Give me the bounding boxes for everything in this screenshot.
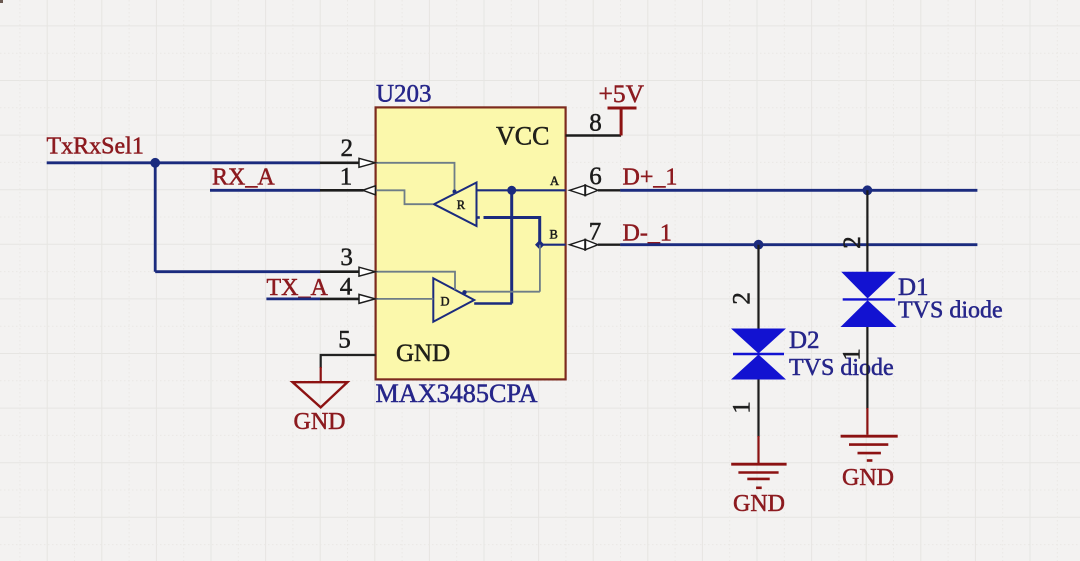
ground symbol D2 <box>731 464 786 488</box>
ground symbol pin5 <box>293 382 348 407</box>
junction A internal <box>507 186 516 195</box>
junction D- <box>754 240 764 250</box>
junction TxRxSel1 <box>150 158 160 168</box>
wire pin2 internal <box>376 163 455 194</box>
wire D1 top <box>866 190 868 271</box>
ground symbol D1 <box>841 436 898 460</box>
svg-text:B: B <box>550 228 558 242</box>
wire pin4 internal <box>376 298 434 300</box>
pin 6 stub <box>598 189 620 191</box>
svg-text:3: 3 <box>340 244 353 271</box>
wire D output to A <box>474 302 512 304</box>
svg-text:A: A <box>550 174 559 188</box>
pin 3 arrow <box>359 267 375 276</box>
svg-text:TVS diode: TVS diode <box>898 298 1003 324</box>
svg-text:7: 7 <box>589 219 602 246</box>
svg-text:D-_1: D-_1 <box>623 221 672 247</box>
wire D+ <box>620 189 977 192</box>
TVS diode D2 symbol <box>731 329 786 380</box>
wire A net vertical thick <box>510 190 513 303</box>
svg-text:2: 2 <box>728 292 755 305</box>
wire B input to R thick <box>477 216 480 219</box>
svg-text:VCC: VCC <box>496 121 549 150</box>
svg-text:D+_1: D+_1 <box>623 165 678 191</box>
pin 1 arrow <box>363 186 376 195</box>
corner mark <box>0 0 3 3</box>
svg-text:8: 8 <box>589 110 602 137</box>
svg-text:R: R <box>457 198 466 212</box>
svg-text:U203: U203 <box>376 81 432 108</box>
svg-text:D2: D2 <box>789 327 820 354</box>
pin 5 wire red part <box>320 367 322 381</box>
junction D+ <box>863 185 873 195</box>
pin 8 wire <box>566 134 622 136</box>
pin 5 wire <box>321 355 376 368</box>
pin 4 arrow <box>359 294 375 303</box>
svg-text:2: 2 <box>341 135 354 162</box>
svg-text:TX_A: TX_A <box>267 275 329 301</box>
receiver triangle R <box>434 183 477 227</box>
pin 2 arrow <box>359 158 375 167</box>
svg-text:2: 2 <box>839 236 866 249</box>
svg-text:6: 6 <box>589 163 602 190</box>
svg-text:MAX3485CPA: MAX3485CPA <box>376 379 538 408</box>
svg-text:RX_A: RX_A <box>212 165 275 191</box>
wire to pin 3 <box>155 270 320 273</box>
junction B internal <box>535 240 544 250</box>
wire D2 bottom red <box>757 436 759 464</box>
pin 7 IO symbol <box>570 240 598 250</box>
svg-text:GND: GND <box>842 465 894 491</box>
wire B net vertical gray <box>539 245 541 292</box>
TVS diode D1 symbol <box>841 272 897 327</box>
svg-text:4: 4 <box>340 274 353 301</box>
power +5V symbol <box>608 108 637 136</box>
svg-text:D: D <box>441 295 450 309</box>
wire D- <box>620 243 977 246</box>
svg-text:1: 1 <box>839 348 866 361</box>
wire TxRxSel1 horizontal to pin 2 <box>47 161 320 164</box>
wire D inverted output to B <box>466 291 540 293</box>
svg-text:GND: GND <box>396 340 450 367</box>
wire D1 bottom <box>866 327 868 409</box>
wire pin1 internal <box>376 190 433 204</box>
svg-text:5: 5 <box>338 327 351 354</box>
wire TxRxSel1 vertical <box>154 163 157 272</box>
pin 7 stub <box>598 243 620 245</box>
inversion dot D output <box>462 290 466 294</box>
wire D1 bottom red <box>866 408 868 435</box>
wire D2 bottom <box>757 380 759 438</box>
wire RX_A <box>210 189 320 192</box>
wire D2 top <box>757 245 759 329</box>
op-amp U1 chip body U203 <box>376 107 566 379</box>
wire pin3 internal <box>376 272 455 290</box>
driver triangle D <box>433 278 474 321</box>
svg-text:1: 1 <box>340 163 353 190</box>
svg-text:TxRxSel1: TxRxSel1 <box>47 134 144 160</box>
wire B to pin 7 <box>540 244 566 246</box>
svg-text:GND: GND <box>733 491 785 517</box>
wire TX_A <box>266 297 320 300</box>
svg-text:GND: GND <box>294 409 346 435</box>
junction pin2 enable <box>453 190 457 194</box>
svg-text:+5V: +5V <box>599 79 645 108</box>
wire A input to R <box>477 189 566 191</box>
svg-text:1: 1 <box>728 401 755 414</box>
pin 6 IO symbol <box>570 185 598 195</box>
